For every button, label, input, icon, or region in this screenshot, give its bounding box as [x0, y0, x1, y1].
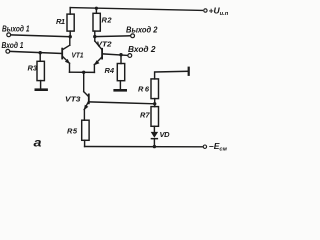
terminal output1 circle: [7, 33, 11, 37]
svg-text:R1: R1: [56, 17, 65, 26]
node R6 R7 base junction: [153, 102, 156, 105]
node collector VT2 junction: [93, 35, 96, 38]
wire input2 (VT2 base): [103, 54, 128, 56]
node R3 tap junction: [39, 51, 42, 54]
wire VT3 base to R6R7: [90, 102, 155, 104]
svg-text:а: а: [34, 138, 43, 150]
svg-text:–Eсм: –Eсм: [209, 141, 228, 153]
resistor R7: [151, 107, 159, 127]
wire output2: [95, 35, 131, 38]
transistor VT2 emitter arrow: [94, 60, 100, 65]
transistor VT1: [61, 37, 70, 72]
node VD bottom junction: [153, 145, 156, 148]
svg-text:R7: R7: [140, 111, 150, 120]
diode VD: [151, 132, 158, 138]
node R2 top junction: [95, 7, 98, 10]
wire bottom rail: [85, 146, 203, 148]
node R4 tap junction: [119, 53, 122, 56]
wire top supply rail: [70, 8, 202, 11]
svg-text:VD: VD: [160, 130, 171, 139]
resistor R1: [69, 8, 71, 15]
ground chassis right of R6: [188, 67, 190, 76]
terminal +Uip circle: [204, 9, 207, 12]
terminal input2 circle: [128, 54, 132, 58]
terminal -Esm circle: [203, 145, 206, 148]
svg-text:R2: R2: [102, 16, 113, 25]
wire input1: [10, 51, 62, 53]
svg-text:VT2: VT2: [97, 40, 112, 49]
svg-text:Выход 2: Выход 2: [126, 24, 158, 34]
svg-text:R4: R4: [105, 66, 115, 75]
transistor VT1 emitter arrow: [65, 59, 70, 64]
resistor R3: [39, 53, 41, 62]
transistor VT2: [94, 37, 103, 73]
ground chassis below R3: [35, 88, 48, 91]
wire R6 top to chassis: [155, 71, 189, 79]
svg-text:Вход 1: Вход 1: [2, 40, 24, 50]
node emitter join junction: [82, 71, 85, 74]
resistor R4: [120, 55, 122, 64]
node collector VT1 junction: [69, 35, 72, 38]
wire emitter join: [70, 71, 95, 73]
svg-text:VT1: VT1: [72, 51, 84, 60]
svg-text:+Uи.п: +Uи.п: [209, 6, 229, 18]
svg-text:R5: R5: [67, 127, 78, 136]
svg-text:R3: R3: [28, 64, 38, 73]
ground chassis below R4: [113, 89, 127, 92]
transistor VT3: [84, 72, 90, 120]
terminal input1 circle: [6, 49, 10, 53]
resistor R2: [95, 10, 97, 13]
svg-text:Выход 1: Выход 1: [2, 24, 30, 34]
resistor R5: [82, 120, 89, 140]
wire output1: [11, 35, 70, 37]
transistor VT3 emitter arrow: [84, 105, 89, 111]
resistor R6: [151, 79, 159, 99]
svg-text:Вход 2: Вход 2: [128, 44, 156, 54]
svg-text:R6: R6: [138, 85, 150, 94]
terminal output2 circle: [131, 34, 135, 38]
svg-text:VT3: VT3: [65, 95, 81, 104]
